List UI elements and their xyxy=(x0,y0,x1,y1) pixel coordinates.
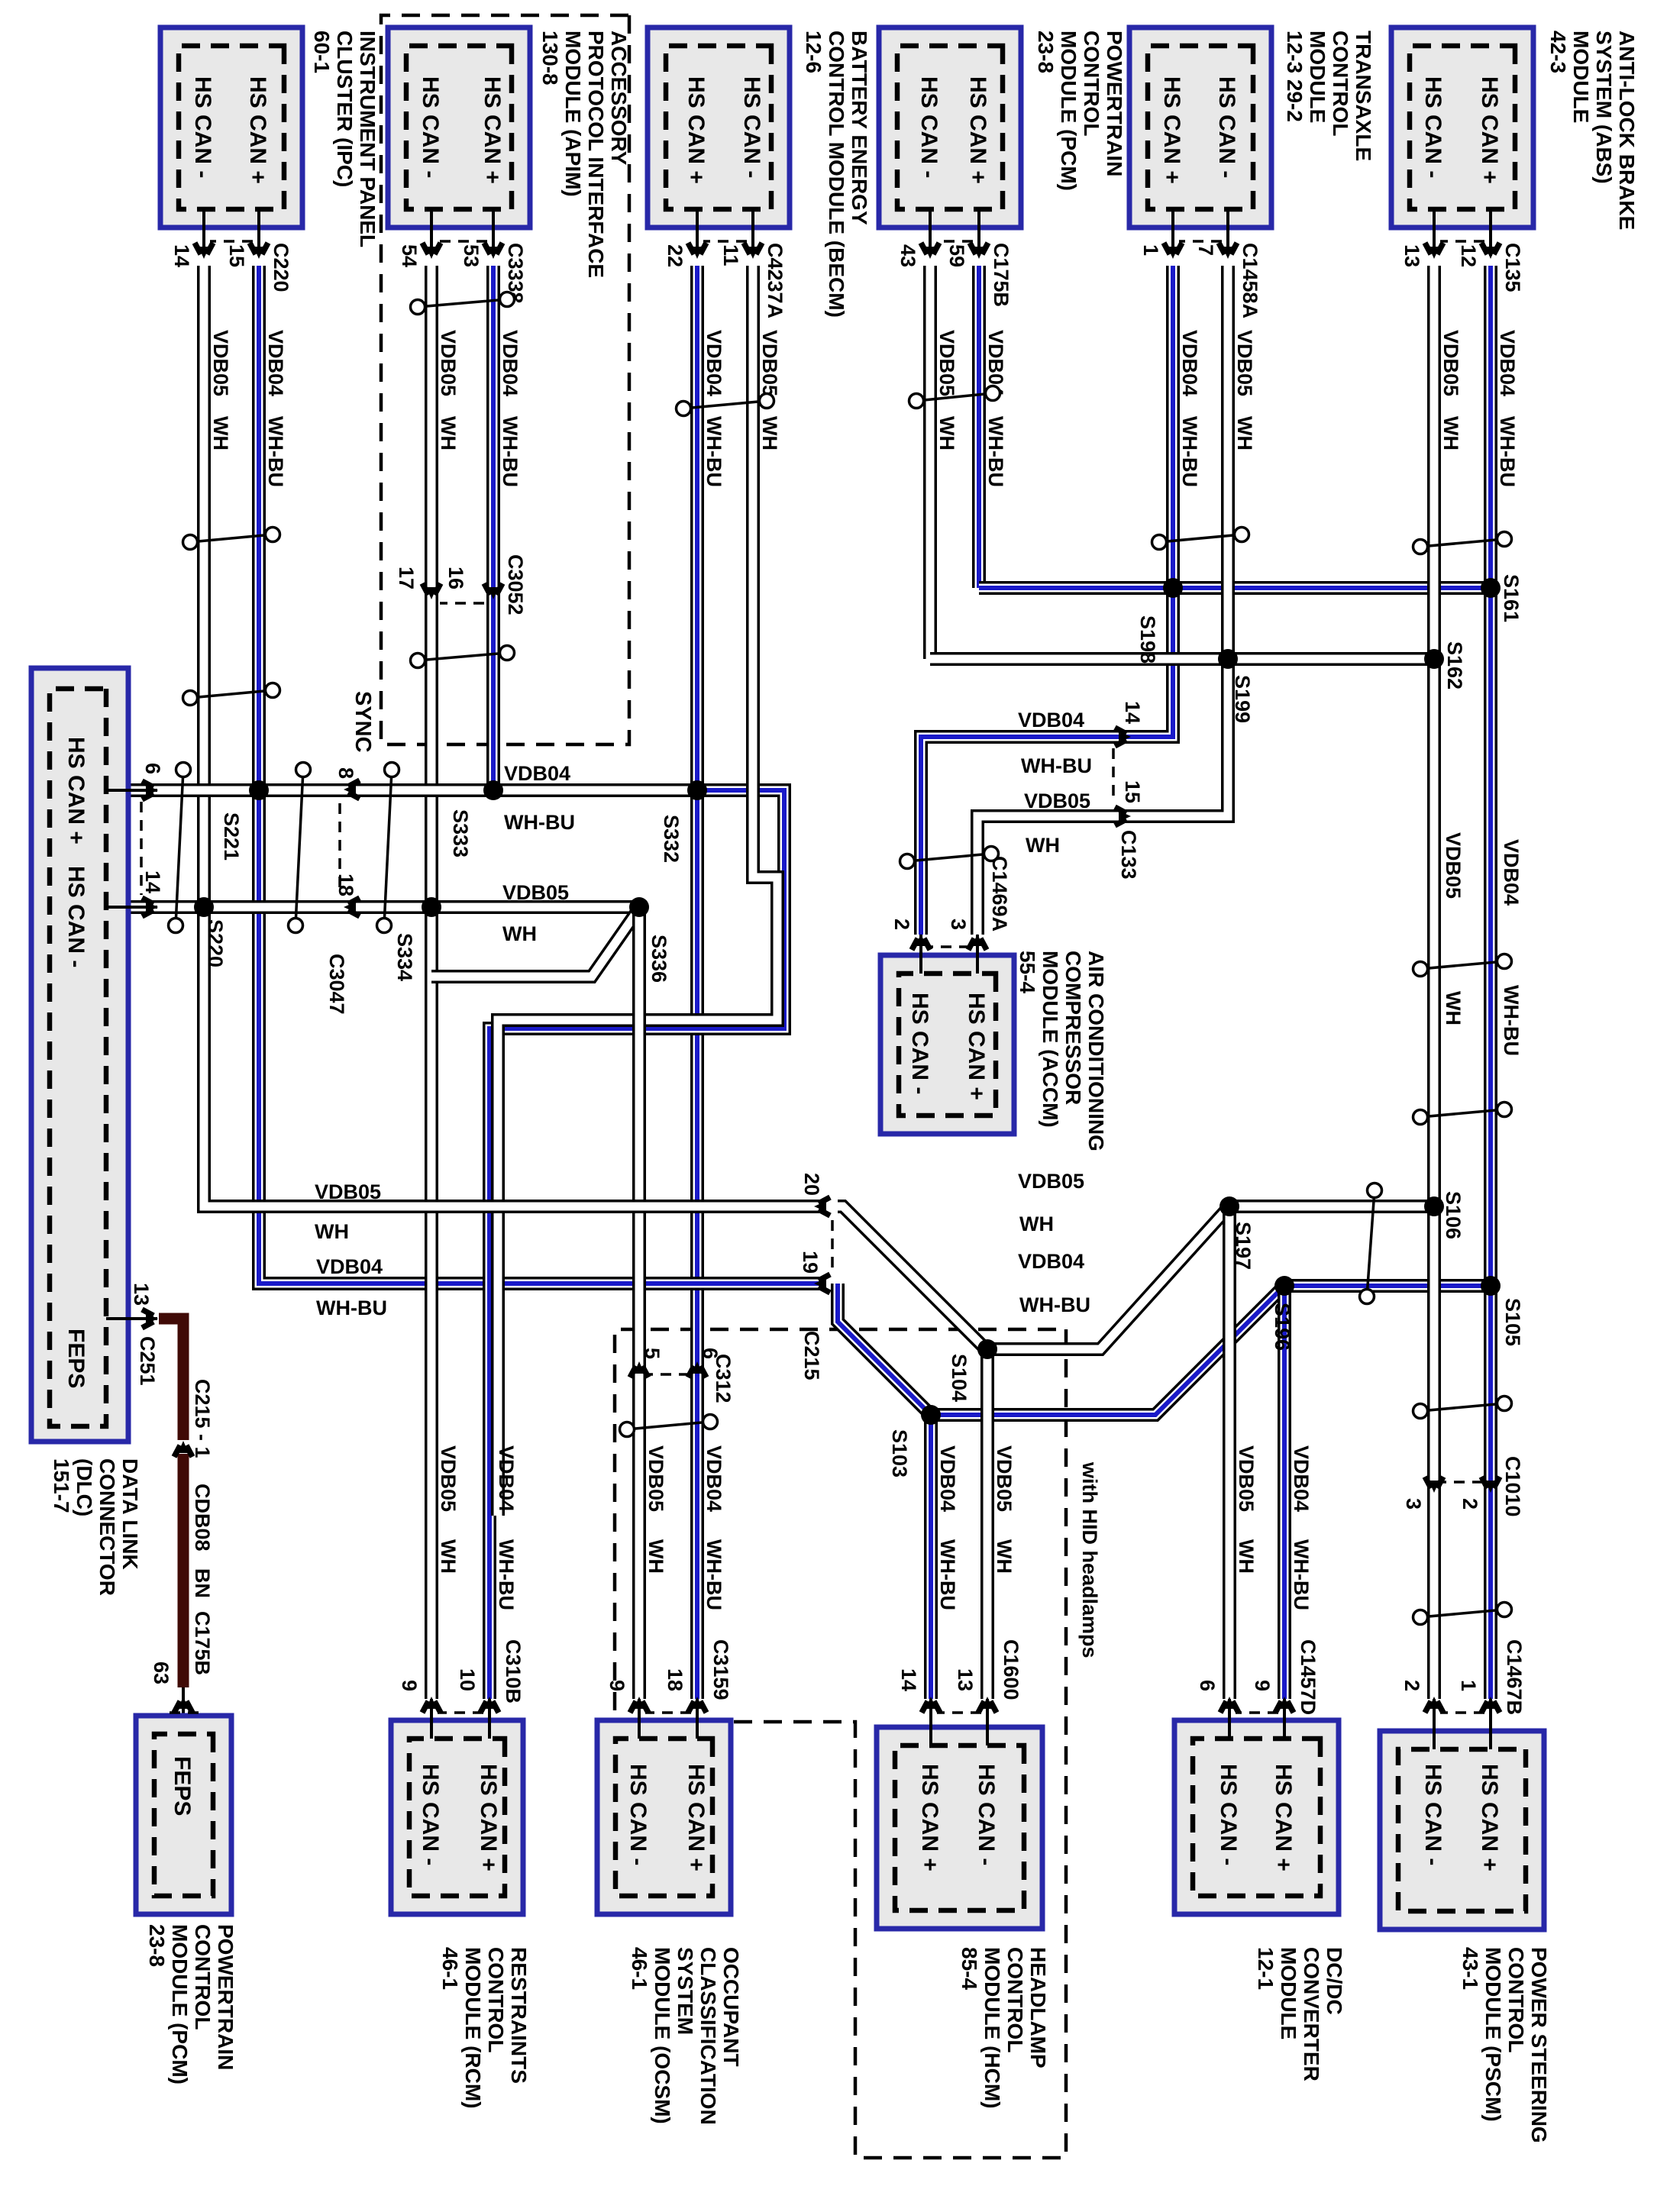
svg-text:RESTRAINTS: RESTRAINTS xyxy=(507,1947,531,2084)
svg-text:VDB05: VDB05 xyxy=(1233,330,1256,396)
svg-text:16: 16 xyxy=(444,567,467,589)
svg-text:WH: WH xyxy=(644,1539,667,1574)
svg-text:VDB05: VDB05 xyxy=(935,330,958,396)
svg-text:OCCUPANT: OCCUPANT xyxy=(719,1947,743,2067)
svg-text:CDB08: CDB08 xyxy=(191,1484,214,1552)
svg-text:C175B: C175B xyxy=(990,243,1013,307)
svg-text:CONTROL: CONTROL xyxy=(484,1947,508,2052)
svg-text:14: 14 xyxy=(141,870,164,893)
svg-text:WH: WH xyxy=(1233,416,1256,450)
svg-text:HS CAN -: HS CAN - xyxy=(418,76,443,178)
svg-text:17: 17 xyxy=(395,567,418,589)
svg-text:9: 9 xyxy=(1251,1680,1274,1691)
svg-text:2: 2 xyxy=(1400,1680,1423,1691)
svg-text:59: 59 xyxy=(945,244,968,267)
svg-text:VDB04: VDB04 xyxy=(1018,1250,1084,1273)
svg-text:HS CAN +: HS CAN + xyxy=(917,1764,942,1871)
svg-text:WH-BU: WH-BU xyxy=(984,416,1007,487)
svg-text:VDB04: VDB04 xyxy=(499,330,522,396)
svg-text:HS CAN -: HS CAN - xyxy=(916,76,942,178)
svg-text:C251: C251 xyxy=(136,1336,159,1386)
svg-text:VDB04: VDB04 xyxy=(1290,1445,1313,1512)
svg-text:HS CAN +: HS CAN + xyxy=(476,1764,501,1871)
svg-text:COMPRESSOR: COMPRESSOR xyxy=(1061,951,1085,1105)
svg-text:(DLC): (DLC) xyxy=(73,1458,96,1516)
svg-text:MODULE (PSCM): MODULE (PSCM) xyxy=(1481,1947,1505,2122)
svg-text:14: 14 xyxy=(1121,701,1144,724)
svg-text:5: 5 xyxy=(641,1348,664,1359)
svg-text:WH-BU: WH-BU xyxy=(703,1539,725,1610)
svg-text:55-4: 55-4 xyxy=(1016,951,1039,993)
svg-text:VDB05: VDB05 xyxy=(315,1180,381,1203)
svg-text:130-8: 130-8 xyxy=(538,31,562,86)
svg-text:WH: WH xyxy=(1026,834,1060,857)
svg-text:HS CAN -: HS CAN - xyxy=(1420,76,1446,178)
svg-text:WH-BU: WH-BU xyxy=(1500,985,1523,1056)
svg-text:C1010: C1010 xyxy=(1501,1456,1524,1517)
svg-text:HS CAN +: HS CAN + xyxy=(63,737,89,844)
svg-text:WH-BU: WH-BU xyxy=(495,1539,518,1610)
svg-text:VDB05: VDB05 xyxy=(993,1445,1016,1512)
svg-text:S221: S221 xyxy=(220,812,243,861)
svg-text:TRANSAXLE: TRANSAXLE xyxy=(1352,31,1375,161)
svg-text:VDB04: VDB04 xyxy=(1500,839,1523,906)
svg-text:WH-BU: WH-BU xyxy=(264,416,287,487)
svg-text:WH-BU: WH-BU xyxy=(504,811,575,834)
svg-text:WH: WH xyxy=(1235,1539,1258,1574)
svg-text:WH-BU: WH-BU xyxy=(1178,416,1201,487)
svg-text:20: 20 xyxy=(800,1173,823,1196)
svg-text:S334: S334 xyxy=(393,933,416,981)
svg-text:14: 14 xyxy=(897,1668,920,1691)
svg-text:HS CAN +: HS CAN + xyxy=(964,993,989,1100)
svg-text:12-1: 12-1 xyxy=(1254,1947,1278,1990)
svg-text:HS CAN -: HS CAN - xyxy=(1420,1764,1446,1865)
svg-text:HS CAN -: HS CAN - xyxy=(974,1764,999,1865)
svg-text:VDB05: VDB05 xyxy=(644,1445,667,1512)
svg-text:VDB05: VDB05 xyxy=(1439,330,1462,396)
svg-text:POWERTRAIN: POWERTRAIN xyxy=(1103,31,1126,176)
svg-text:46-1: 46-1 xyxy=(438,1947,462,1990)
svg-text:C1457D: C1457D xyxy=(1297,1639,1320,1715)
svg-text:C220: C220 xyxy=(270,243,292,292)
svg-text:HS CAN +: HS CAN + xyxy=(965,76,990,184)
svg-text:18: 18 xyxy=(664,1668,686,1691)
svg-text:MODULE (PCM): MODULE (PCM) xyxy=(168,1924,192,2084)
svg-text:POWER STEERING: POWER STEERING xyxy=(1527,1947,1551,2143)
svg-text:HS CAN -: HS CAN - xyxy=(190,76,215,178)
svg-text:HS CAN -: HS CAN - xyxy=(739,76,764,178)
svg-text:S162: S162 xyxy=(1443,641,1466,689)
svg-text:ANTI-LOCK BRAKE: ANTI-LOCK BRAKE xyxy=(1615,31,1639,230)
svg-text:VDB04: VDB04 xyxy=(936,1445,959,1512)
svg-text:HS CAN -: HS CAN - xyxy=(907,993,932,1094)
svg-text:VDB04: VDB04 xyxy=(264,330,287,396)
svg-text:12: 12 xyxy=(1457,244,1480,267)
svg-text:CONTROL: CONTROL xyxy=(1080,31,1103,136)
svg-text:12-6: 12-6 xyxy=(802,31,825,73)
svg-text:151-7: 151-7 xyxy=(50,1458,73,1513)
svg-text:C3052: C3052 xyxy=(504,554,527,615)
svg-text:CONTROL: CONTROL xyxy=(1329,31,1352,136)
svg-text:WH: WH xyxy=(315,1220,349,1243)
svg-text:3: 3 xyxy=(947,919,970,930)
svg-text:C1458A: C1458A xyxy=(1239,243,1261,318)
svg-text:HS CAN -: HS CAN - xyxy=(63,866,89,967)
svg-text:2: 2 xyxy=(1459,1498,1481,1510)
svg-text:WH: WH xyxy=(993,1539,1016,1574)
svg-text:1: 1 xyxy=(1139,244,1162,256)
svg-text:CONTROL MODULE (BECM): CONTROL MODULE (BECM) xyxy=(825,31,848,318)
svg-text:VDB05: VDB05 xyxy=(437,330,460,396)
svg-text:WH-BU: WH-BU xyxy=(316,1297,387,1319)
svg-text:HS CAN -: HS CAN - xyxy=(1216,1764,1241,1865)
svg-text:C1467B: C1467B xyxy=(1503,1639,1526,1715)
svg-text:43: 43 xyxy=(896,244,919,267)
svg-text:VDB05: VDB05 xyxy=(502,881,569,904)
svg-text:HS CAN -: HS CAN - xyxy=(1214,76,1239,178)
svg-text:FEPS: FEPS xyxy=(170,1756,195,1816)
svg-text:CONTROL: CONTROL xyxy=(191,1924,215,2030)
svg-text:MODULE (RCM): MODULE (RCM) xyxy=(461,1947,485,2109)
svg-text:VDB05: VDB05 xyxy=(1235,1445,1258,1512)
svg-text:13: 13 xyxy=(1400,244,1423,267)
svg-text:S336: S336 xyxy=(648,935,670,983)
svg-text:CONVERTER: CONVERTER xyxy=(1300,1947,1323,2081)
svg-text:WH-BU: WH-BU xyxy=(1019,1293,1090,1316)
svg-text:42-3: 42-3 xyxy=(1546,31,1570,73)
svg-text:12-3 29-2: 12-3 29-2 xyxy=(1283,31,1307,122)
svg-text:C3047: C3047 xyxy=(325,954,348,1015)
svg-text:VDB05: VDB05 xyxy=(1442,832,1465,899)
svg-text:BATTERY ENERGY: BATTERY ENERGY xyxy=(848,31,871,225)
svg-text:VDB04: VDB04 xyxy=(495,1445,518,1512)
svg-text:S105: S105 xyxy=(1501,1298,1524,1346)
svg-text:CLUSTER (IPC): CLUSTER (IPC) xyxy=(333,31,357,187)
svg-text:ACCESSORY: ACCESSORY xyxy=(607,31,631,166)
svg-text:85-4: 85-4 xyxy=(958,1947,981,1990)
svg-text:WH: WH xyxy=(1439,416,1462,450)
svg-text:SYSTEM: SYSTEM xyxy=(674,1947,697,2035)
svg-text:S220: S220 xyxy=(204,919,227,967)
svg-text:with HID headlamps: with HID headlamps xyxy=(1078,1461,1101,1658)
svg-text:VDB05: VDB05 xyxy=(758,330,781,396)
svg-text:MODULE (ACCM): MODULE (ACCM) xyxy=(1039,951,1062,1128)
svg-text:SYNC: SYNC xyxy=(351,691,375,753)
svg-text:HS CAN +: HS CAN + xyxy=(1271,1764,1296,1871)
svg-text:14: 14 xyxy=(170,244,193,267)
svg-text:VDB05: VDB05 xyxy=(1024,790,1090,812)
svg-text:13: 13 xyxy=(954,1668,977,1691)
svg-text:VDB04: VDB04 xyxy=(703,1445,725,1512)
svg-text:HS CAN +: HS CAN + xyxy=(245,76,270,184)
svg-text:S333: S333 xyxy=(449,809,472,857)
svg-text:C1600: C1600 xyxy=(1000,1639,1022,1700)
svg-text:WH: WH xyxy=(502,922,537,945)
svg-text:WH-BU: WH-BU xyxy=(1496,416,1519,487)
svg-text:SYSTEM (ABS): SYSTEM (ABS) xyxy=(1592,31,1616,184)
svg-text:11: 11 xyxy=(719,244,742,266)
svg-text:C310B: C310B xyxy=(502,1639,525,1703)
svg-text:MODULE (OCSM): MODULE (OCSM) xyxy=(651,1947,674,2124)
svg-text:FEPS: FEPS xyxy=(63,1329,89,1388)
svg-text:S103: S103 xyxy=(888,1429,911,1477)
svg-text:S106: S106 xyxy=(1442,1191,1465,1239)
svg-text:S332: S332 xyxy=(660,815,683,863)
svg-text:C1469A: C1469A xyxy=(988,856,1011,932)
svg-text:POWERTRAIN: POWERTRAIN xyxy=(214,1924,237,2070)
svg-text:HS CAN -: HS CAN - xyxy=(625,1764,651,1865)
svg-text:C4237A: C4237A xyxy=(764,243,787,318)
svg-text:VDB05: VDB05 xyxy=(1018,1170,1084,1193)
svg-text:VDB04: VDB04 xyxy=(1496,330,1519,396)
svg-text:63: 63 xyxy=(150,1661,173,1684)
svg-text:HS CAN +: HS CAN + xyxy=(683,76,709,184)
svg-text:VDB05: VDB05 xyxy=(437,1445,460,1512)
svg-text:54: 54 xyxy=(398,244,421,267)
svg-text:HS CAN +: HS CAN + xyxy=(1159,76,1184,184)
svg-text:VDB04: VDB04 xyxy=(504,762,570,785)
svg-text:WH: WH xyxy=(758,416,781,450)
svg-text:C133: C133 xyxy=(1117,830,1140,880)
svg-text:C135: C135 xyxy=(1501,243,1524,292)
svg-text:CONTROL: CONTROL xyxy=(1003,1947,1027,2052)
svg-text:S199: S199 xyxy=(1231,675,1254,723)
svg-text:VDB04: VDB04 xyxy=(316,1255,383,1278)
svg-text:C215: C215 xyxy=(800,1331,823,1380)
svg-text:WH: WH xyxy=(437,416,460,450)
svg-text:BN: BN xyxy=(191,1568,214,1598)
svg-text:WH: WH xyxy=(209,416,232,450)
svg-text:C3159: C3159 xyxy=(709,1639,732,1700)
svg-text:MODULE: MODULE xyxy=(1306,31,1329,123)
svg-text:MODULE (APIM): MODULE (APIM) xyxy=(561,31,585,197)
svg-text:53: 53 xyxy=(460,244,483,267)
svg-text:15: 15 xyxy=(1121,780,1144,803)
svg-text:VDB05: VDB05 xyxy=(209,330,232,396)
svg-text:43-1: 43-1 xyxy=(1459,1947,1482,1990)
svg-text:S198: S198 xyxy=(1136,615,1159,664)
svg-text:AIR CONDITIONING: AIR CONDITIONING xyxy=(1084,951,1108,1151)
svg-text:HEADLAMP: HEADLAMP xyxy=(1026,1947,1050,2068)
svg-text:HS CAN +: HS CAN + xyxy=(683,1764,709,1871)
svg-text:INSTRUMENT PANEL: INSTRUMENT PANEL xyxy=(356,31,380,247)
svg-text:HS CAN +: HS CAN + xyxy=(1477,1764,1502,1871)
svg-text:MODULE: MODULE xyxy=(1569,31,1593,123)
svg-text:6: 6 xyxy=(1196,1680,1219,1691)
svg-text:S104: S104 xyxy=(948,1354,971,1402)
svg-text:8: 8 xyxy=(334,767,357,779)
svg-text:MODULE: MODULE xyxy=(1277,1947,1300,2039)
svg-text:CONTROL: CONTROL xyxy=(1504,1947,1528,2052)
svg-text:WH-BU: WH-BU xyxy=(1021,754,1092,777)
svg-text:22: 22 xyxy=(664,244,686,267)
svg-text:1: 1 xyxy=(1457,1680,1480,1691)
svg-text:10: 10 xyxy=(456,1668,479,1691)
svg-text:CLASSIFICATION: CLASSIFICATION xyxy=(696,1947,720,2125)
svg-text:C215 - 1: C215 - 1 xyxy=(191,1379,214,1458)
svg-text:DC/DC: DC/DC xyxy=(1323,1947,1346,2015)
svg-text:WH: WH xyxy=(935,416,958,450)
svg-text:S197: S197 xyxy=(1232,1222,1255,1270)
svg-text:7: 7 xyxy=(1194,244,1217,256)
svg-text:2: 2 xyxy=(890,919,913,930)
svg-text:WH: WH xyxy=(1442,991,1465,1025)
svg-text:VDB04: VDB04 xyxy=(703,330,725,396)
svg-text:13: 13 xyxy=(130,1283,153,1306)
svg-text:15: 15 xyxy=(225,244,248,267)
svg-text:VDB04: VDB04 xyxy=(1178,330,1201,396)
svg-text:9: 9 xyxy=(398,1680,421,1691)
svg-text:WH-BU: WH-BU xyxy=(703,416,725,487)
svg-text:19: 19 xyxy=(799,1251,822,1274)
svg-text:S161: S161 xyxy=(1500,574,1523,622)
svg-text:CONNECTOR: CONNECTOR xyxy=(95,1458,119,1596)
svg-text:WH: WH xyxy=(1019,1213,1054,1235)
svg-text:MODULE (HCM): MODULE (HCM) xyxy=(980,1947,1004,2109)
svg-text:VDB04: VDB04 xyxy=(1018,709,1084,731)
svg-text:HS CAN -: HS CAN - xyxy=(418,1764,443,1865)
svg-text:PROTOCOL INTERFACE: PROTOCOL INTERFACE xyxy=(584,31,608,278)
svg-text:WH-BU: WH-BU xyxy=(499,416,522,487)
svg-text:18: 18 xyxy=(334,873,357,896)
svg-text:46-1: 46-1 xyxy=(628,1947,651,1990)
svg-text:3: 3 xyxy=(1402,1498,1425,1510)
svg-text:S196: S196 xyxy=(1271,1303,1294,1351)
svg-text:HS CAN +: HS CAN + xyxy=(480,76,505,184)
svg-text:WH: WH xyxy=(437,1539,460,1574)
svg-text:HS CAN +: HS CAN + xyxy=(1477,76,1502,184)
svg-text:DATA LINK: DATA LINK xyxy=(118,1458,142,1570)
svg-text:6: 6 xyxy=(141,763,164,774)
svg-text:23-8: 23-8 xyxy=(1034,31,1058,73)
svg-text:9: 9 xyxy=(606,1680,628,1691)
svg-text:WH-BU: WH-BU xyxy=(1290,1539,1313,1610)
svg-text:WH-BU: WH-BU xyxy=(936,1539,959,1610)
svg-text:MODULE (PCM): MODULE (PCM) xyxy=(1057,31,1081,191)
svg-text:60-1: 60-1 xyxy=(310,31,334,73)
svg-text:23-8: 23-8 xyxy=(145,1924,169,1967)
svg-text:C312: C312 xyxy=(712,1354,735,1403)
svg-text:C175B: C175B xyxy=(191,1611,214,1675)
